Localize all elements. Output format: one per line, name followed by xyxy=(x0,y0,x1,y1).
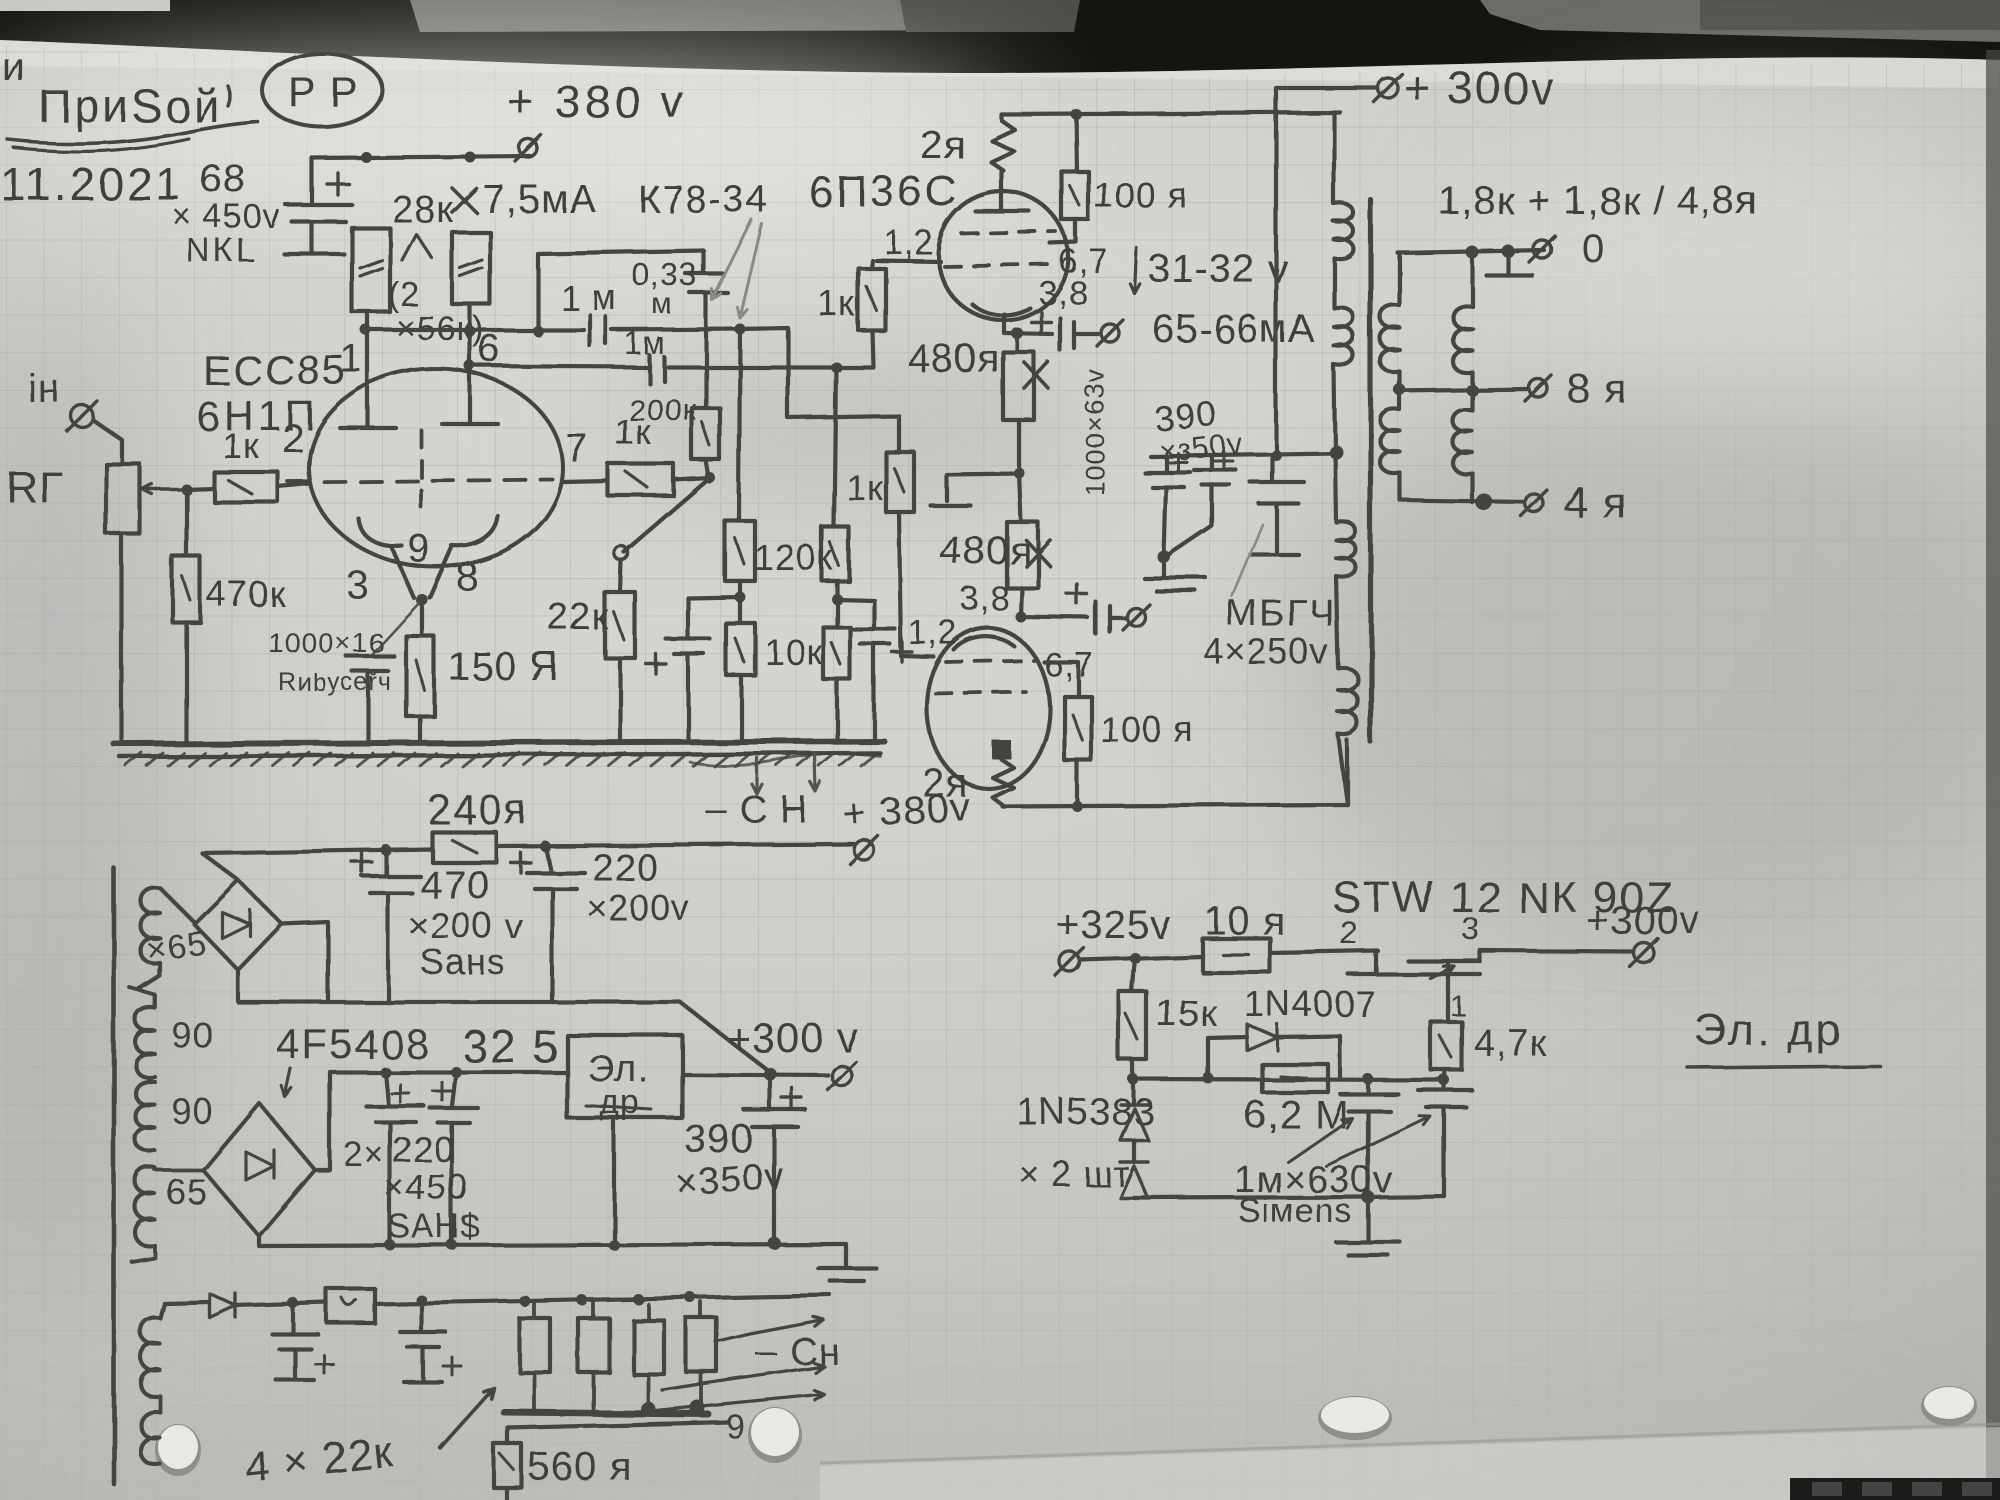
svg-text:Р Р: Р Р xyxy=(288,68,359,115)
grid dashed line ECC85 xyxy=(288,479,552,482)
wire node6 down (x836) xyxy=(834,367,836,527)
wire anode top to OT xyxy=(1001,112,1340,120)
svg-text:и: и xyxy=(2,45,25,89)
svg-text:м: м xyxy=(652,288,674,321)
resistor 240R xyxy=(432,832,496,862)
electronic choke box xyxy=(567,1035,682,1118)
caps 2x220x450 xyxy=(385,1072,388,1104)
anode bar upper tube xyxy=(976,171,1030,212)
cathode cap lower xyxy=(1021,617,1088,618)
terminal +380 xyxy=(519,139,537,157)
svg-text:1к: 1к xyxy=(846,467,884,508)
svg-text:220: 220 xyxy=(392,1129,455,1170)
svg-text:др: др xyxy=(600,1084,641,1122)
resistor 560R xyxy=(506,1428,510,1444)
svg-text:100 я: 100 я xyxy=(1100,709,1195,750)
svg-text:220: 220 xyxy=(592,847,658,889)
svg-text:+325v: +325v xyxy=(1056,903,1171,947)
svg-text:1: 1 xyxy=(1450,990,1468,1023)
capacitor 0,33M xyxy=(686,251,728,330)
resistor right upper xyxy=(822,527,849,581)
svg-text:120к: 120к xyxy=(754,537,834,578)
svg-text:560 я: 560 я xyxy=(528,1445,633,1489)
caps 1Mx630 xyxy=(1340,1079,1398,1111)
winding 90b xyxy=(136,1081,156,1151)
svg-text:6П36С: 6П36С xyxy=(808,167,960,216)
svg-text:4,7к: 4,7к xyxy=(1474,1023,1547,1065)
wire to 22k node xyxy=(624,478,710,552)
325V rail xyxy=(315,1072,567,1170)
MOSFET STW12NK90Z xyxy=(1374,951,1378,972)
anode square lower tube xyxy=(992,740,1011,759)
svg-text:11.2021: 11.2021 xyxy=(0,158,184,210)
label 31-32v xyxy=(1130,248,1140,294)
wire +300 to CT xyxy=(1276,88,1377,454)
screen dashes lower tube xyxy=(946,660,1034,662)
svg-text:28к: 28к xyxy=(392,189,454,231)
screen dashes upper tube xyxy=(962,232,1056,234)
resistor 1k grid upper xyxy=(858,268,885,330)
wire pot to ground xyxy=(120,534,124,742)
desk background xyxy=(0,0,2000,90)
svg-text:32 5: 32 5 xyxy=(462,1020,560,1072)
svg-text:2: 2 xyxy=(1340,915,1359,951)
svg-text:470к: 470к xyxy=(206,573,286,614)
winding 65 upper xyxy=(141,888,161,964)
lower page edge xyxy=(820,1424,2000,1463)
diode bias xyxy=(210,1294,236,1318)
arrows to -CH xyxy=(752,758,762,794)
ground regulator xyxy=(1336,1197,1400,1255)
svg-text:1000×63v: 1000×63v xyxy=(1080,369,1110,496)
resistor 10k left lower xyxy=(726,623,755,675)
svg-text:+ 300v: + 300v xyxy=(1404,62,1555,114)
svg-text:240я: 240я xyxy=(428,786,529,833)
wire +380 top rail xyxy=(312,156,530,158)
svg-text:(2: (2 xyxy=(388,276,420,314)
svg-text:22к: 22к xyxy=(548,597,610,639)
svg-text:4 я: 4 я xyxy=(1564,479,1628,528)
svg-text:3,8: 3,8 xyxy=(960,580,1010,618)
winding bias xyxy=(141,1318,161,1397)
svg-text:1 м: 1 м xyxy=(560,277,618,318)
wire choke to +300 xyxy=(682,1074,828,1075)
wire input to pot xyxy=(93,420,122,464)
tick mark xyxy=(228,86,230,106)
svg-text:– Сн: – Сн xyxy=(756,1331,840,1373)
resistor 100R upper xyxy=(1076,114,1077,172)
svg-text:4F5408: 4F5408 xyxy=(276,1020,430,1067)
resistors 4x22k xyxy=(519,1318,550,1372)
capacitor 1000x16 cathode xyxy=(372,602,420,654)
svg-text:1к: 1к xyxy=(614,411,652,452)
resistor 56k (left) xyxy=(352,228,390,312)
capacitor bias left xyxy=(688,597,740,637)
svg-text:Sанs: Sанs xyxy=(420,941,506,982)
svg-text:65: 65 xyxy=(166,1171,208,1212)
svg-text:10к: 10к xyxy=(764,631,823,672)
source lead xyxy=(1446,961,1450,1022)
stub to grid bar xyxy=(930,473,1019,505)
svg-text:Rиbусеřч: Rиbусеřч xyxy=(278,668,392,696)
resistor 1k (pin7) xyxy=(563,481,608,482)
capacitor MBGCh 4x250v xyxy=(1250,456,1304,503)
capacitor 390x350 xyxy=(768,1074,772,1108)
svg-text:65-66мА: 65-66мА xyxy=(1152,307,1315,351)
resistor 6,2M xyxy=(1262,1064,1328,1092)
capacitor 1M (upper coupling) xyxy=(590,315,606,346)
svg-text:150 Я: 150 Я xyxy=(448,645,560,689)
anode stopper 2R lower xyxy=(992,759,1013,806)
resistor 470k xyxy=(184,489,188,556)
svg-text:– С Н: – С Н xyxy=(706,789,808,831)
resistor 480R upper xyxy=(1015,333,1019,352)
ground bus xyxy=(114,741,884,744)
svg-text:2×: 2× xyxy=(344,1136,385,1174)
svg-text:1к: 1к xyxy=(222,425,260,466)
capacitor 1M (lower coupling) xyxy=(649,355,664,383)
svg-text:iн: iн xyxy=(28,367,61,411)
svg-text:ПриSой: ПриSой xyxy=(38,80,222,132)
svg-text:2: 2 xyxy=(282,417,305,461)
OT core xyxy=(1368,200,1373,742)
svg-text:9: 9 xyxy=(726,1408,746,1446)
svg-text:× 450v: × 450v xyxy=(172,198,281,236)
wire lower anode to OT xyxy=(1002,804,1347,806)
bias taps arrows xyxy=(716,1334,750,1342)
wire coupling node to lower grid stopper (Z) xyxy=(740,328,899,452)
svg-text:480я: 480я xyxy=(908,337,1000,381)
svg-text:МБГЧ: МБГЧ xyxy=(1226,593,1337,635)
fuse box xyxy=(327,1289,375,1323)
svg-text:7,5мА: 7,5мА xyxy=(482,177,597,221)
svg-text:68: 68 xyxy=(200,157,247,201)
0V rail upper PSU xyxy=(238,970,680,1002)
lower output tube xyxy=(927,628,1049,788)
cathode hooks xyxy=(358,518,402,546)
svg-text:15к: 15к xyxy=(1156,993,1218,1035)
resistor 1k grid lower xyxy=(886,452,914,512)
punch holes xyxy=(155,1424,201,1476)
resistor 120k left xyxy=(725,521,755,581)
svg-text:SАН$: SАН$ xyxy=(388,1208,481,1246)
grid wire lower tube xyxy=(899,512,934,657)
svg-text:ЕСС85: ЕСС85 xyxy=(202,346,347,393)
svg-text:8 я: 8 я xyxy=(1566,364,1627,411)
ground at 0 xyxy=(1486,251,1532,275)
terminal +325 xyxy=(1060,952,1080,972)
svg-text:К78-34: К78-34 xyxy=(638,179,769,221)
cap bias 1 xyxy=(272,1303,318,1349)
svg-text:1N4007: 1N4007 xyxy=(1244,983,1376,1024)
mark (2 x56k) xyxy=(402,234,432,260)
+380 supply wire xyxy=(202,849,432,853)
center dashed divider xyxy=(419,430,423,516)
terminal +300v top xyxy=(1378,78,1398,98)
svg-text:×200v: ×200v xyxy=(586,887,690,928)
resistor 100R lower xyxy=(1044,662,1078,696)
bias rail xyxy=(164,1302,208,1303)
wire coupling node down (x740) xyxy=(739,329,740,521)
potentiometer RG xyxy=(106,464,140,534)
svg-text:1м: 1м xyxy=(624,325,666,361)
svg-text:RГ: RГ xyxy=(6,463,64,512)
cap bias 2 xyxy=(400,1300,446,1347)
line 4 ohm xyxy=(1400,500,1524,502)
tube ECC85 envelope xyxy=(309,369,563,567)
bridge rectifier 1 xyxy=(194,880,282,970)
svg-text:+ 380 v: + 380 v xyxy=(508,76,688,128)
grid wire upper tube xyxy=(876,260,940,261)
wire plate node 6 xyxy=(470,366,836,367)
diagonal to +300 xyxy=(680,1002,770,1072)
svg-text:1: 1 xyxy=(340,337,363,381)
junction caps bias xyxy=(738,581,742,623)
svg-text:90: 90 xyxy=(172,1091,214,1132)
svg-text:Эл. др: Эл. др xyxy=(1694,1005,1842,1054)
secondary top line 0 xyxy=(1398,250,1544,253)
svg-text:+300 v: +300 v xyxy=(726,1014,859,1061)
svg-text:1,2: 1,2 xyxy=(884,224,934,262)
lower bias wire xyxy=(508,1422,728,1428)
svg-text:31-32 v: 31-32 v xyxy=(1148,247,1288,291)
label x 7,5 mA xyxy=(452,188,476,212)
resistor right lower xyxy=(823,627,850,679)
transformer core left xyxy=(112,868,117,1484)
svg-text:1к: 1к xyxy=(818,283,856,324)
svg-text:9: 9 xyxy=(408,527,431,571)
wire from +380 terminal to 0,33 cap xyxy=(538,251,704,331)
wire bridge1 AC2 xyxy=(282,922,328,1002)
svg-text:4×250v: 4×250v xyxy=(1204,631,1329,672)
capacitor 220x200 xyxy=(545,846,550,870)
cathode upper tube xyxy=(972,304,1030,315)
CT wire to caps xyxy=(1150,453,1335,456)
resistor 56k (right) xyxy=(452,232,490,304)
ground PSU2 xyxy=(818,1244,876,1281)
anode bars ECC85 xyxy=(340,330,396,428)
svg-text:470: 470 xyxy=(420,863,490,907)
winding 90 xyxy=(136,1007,156,1077)
svg-text:6,7: 6,7 xyxy=(1044,646,1094,684)
capacitor bias right xyxy=(837,599,874,627)
capacitor 68uF 450V xyxy=(310,158,314,202)
svg-text:×450: ×450 xyxy=(384,1167,469,1208)
svg-text:2я: 2я xyxy=(920,123,966,167)
svg-text:1,8к + 1,8к / 4,8я: 1,8к + 1,8к / 4,8я xyxy=(1438,179,1758,223)
svg-text:+300v: +300v xyxy=(1586,899,1701,943)
resistor 1k grid (pin2) xyxy=(181,484,192,495)
0V rail PSU2 xyxy=(259,1236,846,1246)
svg-text:100 я: 100 я xyxy=(1094,175,1189,216)
cathode lower tube xyxy=(954,637,1014,650)
svg-text:× 2 шт: × 2 шт xyxy=(1018,1153,1130,1194)
resistor 150R xyxy=(420,600,424,636)
svg-text:390: 390 xyxy=(684,1117,754,1161)
svg-text:3,8: 3,8 xyxy=(1038,274,1088,312)
svg-text:×350v: ×350v xyxy=(674,1155,786,1205)
svg-text:0: 0 xyxy=(1582,227,1605,271)
line 8 ohm xyxy=(1396,389,1528,391)
svg-text:6: 6 xyxy=(478,327,501,371)
resistor 4,7k xyxy=(1431,1022,1462,1070)
capacitor 470x200 xyxy=(384,850,388,874)
input terminal xyxy=(71,405,93,427)
OT primary winding xyxy=(1332,112,1336,204)
svg-text:1,2: 1,2 xyxy=(908,614,958,652)
svg-text:90: 90 xyxy=(172,1015,214,1056)
resistor 480R lower xyxy=(1019,473,1021,522)
bridge rectifier 2 xyxy=(203,1103,315,1236)
svg-text:1000×16: 1000×16 xyxy=(268,627,385,658)
resistor 22k xyxy=(620,560,621,592)
winding 65b xyxy=(136,1168,156,1247)
bottom node wire xyxy=(1144,1197,1368,1198)
PP circle xyxy=(262,53,382,127)
wire plate node 1 xyxy=(366,312,370,330)
svg-text:3: 3 xyxy=(1462,911,1481,947)
heavy bias bus xyxy=(504,1412,708,1414)
svg-text:2я: 2я xyxy=(922,761,968,805)
gate bus xyxy=(1133,1079,1444,1080)
upper output tube xyxy=(938,192,1068,320)
secondary winding B xyxy=(1470,253,1474,306)
resistor 15k xyxy=(1132,958,1135,992)
svg-text:3: 3 xyxy=(346,563,369,607)
svg-text:×200 v: ×200 v xyxy=(408,905,523,946)
choke bottom lead xyxy=(612,1118,616,1245)
secondary winding A xyxy=(1398,253,1402,306)
svg-text:7: 7 xyxy=(566,427,589,471)
svg-text:480я: 480я xyxy=(940,529,1032,573)
svg-text:8: 8 xyxy=(456,555,479,599)
svg-text:NКL: NКL xyxy=(186,232,258,270)
